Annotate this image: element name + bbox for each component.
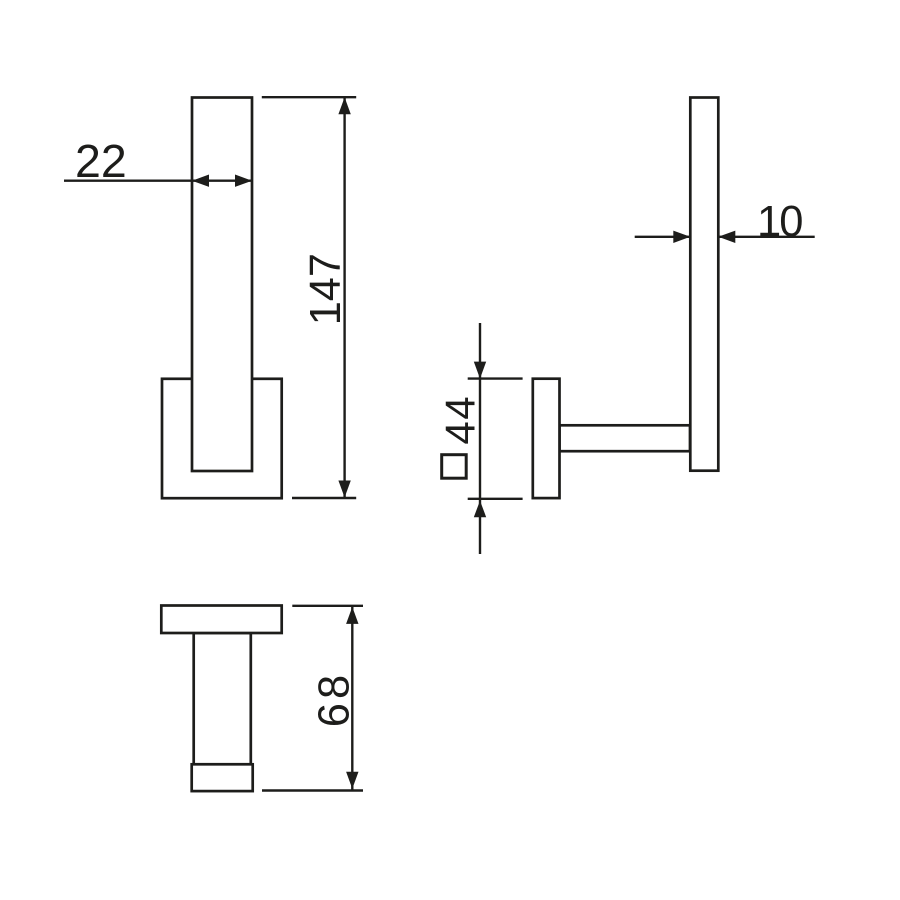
- svg-text:68: 68: [310, 671, 358, 727]
- svg-text:147: 147: [302, 253, 350, 325]
- svg-text:22: 22: [75, 135, 127, 187]
- svg-text:10: 10: [757, 198, 802, 246]
- svg-text:44: 44: [436, 395, 483, 445]
